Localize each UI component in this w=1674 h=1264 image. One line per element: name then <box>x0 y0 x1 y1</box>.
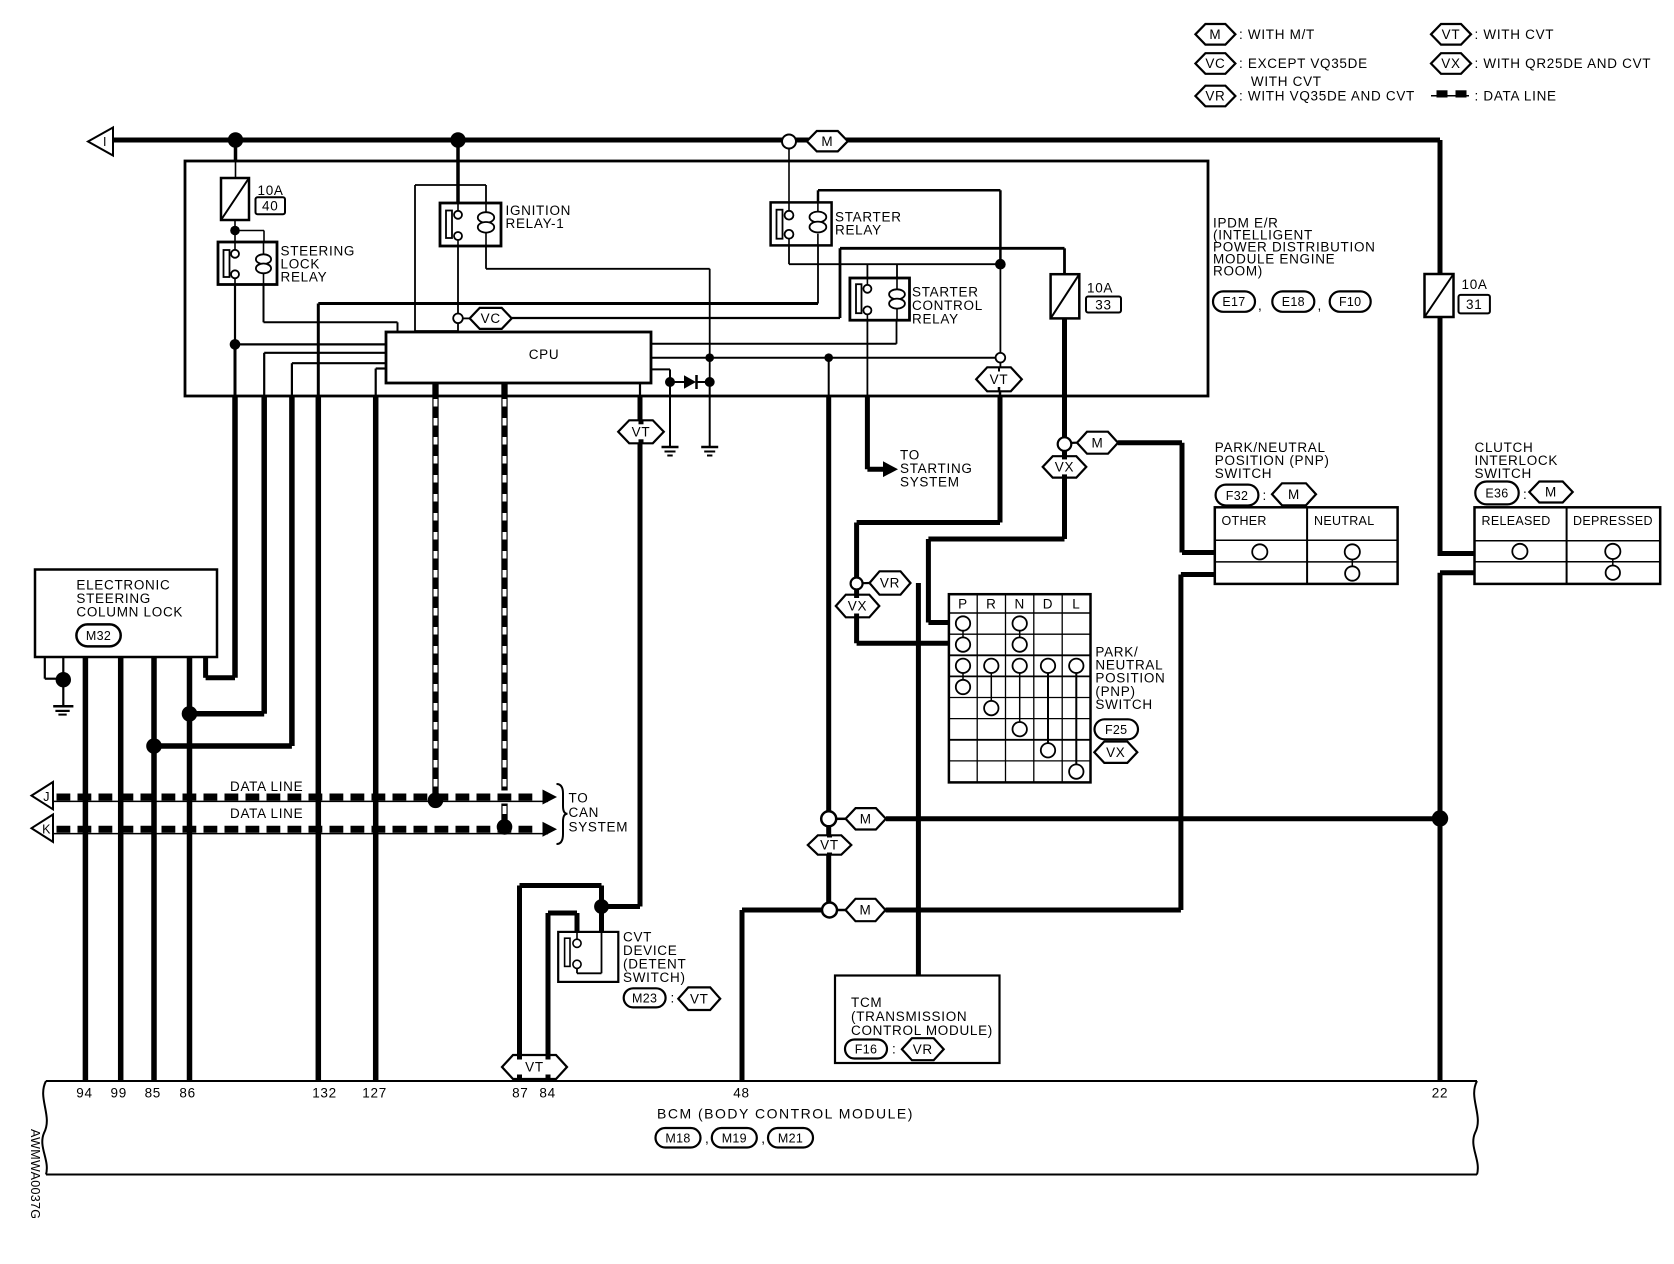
svg-text:CPU: CPU <box>529 347 560 362</box>
svg-text:M: M <box>1288 487 1300 502</box>
svg-text:: WITH VQ35DE AND CVT: : WITH VQ35DE AND CVT <box>1239 89 1415 104</box>
svg-text:BCM (BODY CONTROL MODULE): BCM (BODY CONTROL MODULE) <box>657 1106 914 1122</box>
svg-text:: EXCEPT VQ35DE: : EXCEPT VQ35DE <box>1239 56 1368 71</box>
svg-text:,: , <box>705 1131 709 1146</box>
svg-text:: WITH CVT: : WITH CVT <box>1475 27 1555 42</box>
svg-text:CONTROL MODULE): CONTROL MODULE) <box>851 1023 993 1038</box>
svg-text:M21: M21 <box>778 1131 803 1145</box>
svg-text:99: 99 <box>110 1086 126 1101</box>
svg-text:10A: 10A <box>1087 280 1113 295</box>
svg-text:VX: VX <box>848 599 867 614</box>
svg-text:VX: VX <box>1441 56 1460 71</box>
svg-text:K: K <box>42 822 51 836</box>
svg-text:AWMWA0037G: AWMWA0037G <box>28 1129 42 1219</box>
svg-text:SWITCH: SWITCH <box>1095 697 1152 712</box>
svg-text:P: P <box>958 597 968 612</box>
svg-text:F16: F16 <box>855 1043 877 1057</box>
svg-text:M19: M19 <box>722 1131 747 1145</box>
svg-text:I: I <box>103 135 107 149</box>
svg-text:NEUTRAL: NEUTRAL <box>1314 514 1374 528</box>
svg-text:33: 33 <box>1095 298 1111 313</box>
svg-text:E18: E18 <box>1282 295 1305 309</box>
svg-text:E17: E17 <box>1222 295 1245 309</box>
svg-text:87: 87 <box>512 1086 528 1101</box>
svg-text:F32: F32 <box>1226 489 1248 503</box>
svg-text:SWITCH: SWITCH <box>1215 466 1272 481</box>
svg-text:M: M <box>1092 435 1104 450</box>
svg-text:M: M <box>860 811 872 826</box>
svg-text:SYSTEM: SYSTEM <box>900 475 960 490</box>
svg-text:M: M <box>821 134 833 149</box>
svg-text:48: 48 <box>733 1086 749 1101</box>
svg-text:M: M <box>860 903 872 918</box>
svg-text:WITH CVT: WITH CVT <box>1251 74 1322 89</box>
svg-text::: : <box>671 991 675 1006</box>
svg-text:E36: E36 <box>1485 487 1508 501</box>
svg-text:SYSTEM: SYSTEM <box>569 820 629 835</box>
svg-text:R: R <box>986 597 996 612</box>
svg-text:31: 31 <box>1466 297 1482 312</box>
svg-text:M: M <box>1209 27 1221 42</box>
svg-text:VR: VR <box>913 1042 933 1057</box>
svg-text:F10: F10 <box>1339 295 1361 309</box>
svg-text:VR: VR <box>1205 89 1225 104</box>
svg-text:VT: VT <box>690 991 709 1006</box>
svg-text:SWITCH): SWITCH) <box>623 970 686 985</box>
svg-text:SWITCH: SWITCH <box>1475 466 1532 481</box>
svg-text:M18: M18 <box>665 1131 690 1145</box>
svg-text:OTHER: OTHER <box>1222 514 1267 528</box>
svg-text:127: 127 <box>362 1086 387 1101</box>
svg-text::: : <box>892 1042 896 1057</box>
svg-text:86: 86 <box>179 1086 195 1101</box>
svg-text:VX: VX <box>1055 460 1074 475</box>
svg-text:22: 22 <box>1432 1086 1448 1101</box>
svg-text:F25: F25 <box>1105 723 1127 737</box>
svg-text:: WITH M/T: : WITH M/T <box>1239 27 1315 42</box>
svg-text:VT: VT <box>820 838 839 853</box>
svg-text:L: L <box>1072 597 1080 612</box>
svg-text:VX: VX <box>1106 745 1125 760</box>
svg-text:TO: TO <box>569 791 589 806</box>
svg-text:RELAY: RELAY <box>281 270 328 285</box>
svg-text:RELAY-1: RELAY-1 <box>506 216 565 231</box>
svg-text:VR: VR <box>880 576 900 591</box>
svg-text:M: M <box>1545 485 1557 500</box>
svg-text:94: 94 <box>76 1086 92 1101</box>
svg-text:D: D <box>1043 597 1053 612</box>
svg-text:: WITH QR25DE AND CVT: : WITH QR25DE AND CVT <box>1475 56 1652 71</box>
svg-text:TCM: TCM <box>851 995 882 1010</box>
svg-text:VT: VT <box>525 1060 544 1075</box>
svg-text:10A: 10A <box>258 183 284 198</box>
svg-text:DATA LINE: DATA LINE <box>230 779 303 794</box>
svg-text:85: 85 <box>145 1086 161 1101</box>
svg-text:,: , <box>1318 298 1322 313</box>
svg-text:COLUMN LOCK: COLUMN LOCK <box>76 605 183 620</box>
svg-text:RELAY: RELAY <box>912 312 959 327</box>
svg-text:,: , <box>761 1131 765 1146</box>
svg-text:DEPRESSED: DEPRESSED <box>1573 514 1653 528</box>
svg-text:ROOM): ROOM) <box>1213 264 1263 279</box>
svg-text:M32: M32 <box>86 629 111 643</box>
svg-text:132: 132 <box>312 1086 337 1101</box>
svg-text:RELEASED: RELEASED <box>1482 514 1551 528</box>
svg-text:J: J <box>43 790 50 804</box>
svg-text:(TRANSMISSION: (TRANSMISSION <box>851 1009 967 1024</box>
svg-text:N: N <box>1014 597 1024 612</box>
svg-text:CAN: CAN <box>569 805 600 820</box>
svg-text::: : <box>1263 488 1267 503</box>
svg-text:: DATA LINE: : DATA LINE <box>1475 89 1557 104</box>
svg-text:40: 40 <box>262 199 278 214</box>
svg-text:VT: VT <box>1442 27 1461 42</box>
svg-text:VT: VT <box>990 372 1009 387</box>
svg-text:VC: VC <box>481 311 501 326</box>
svg-text:DATA LINE: DATA LINE <box>230 806 303 821</box>
svg-text::: : <box>1523 487 1527 502</box>
svg-text:RELAY: RELAY <box>835 223 882 238</box>
svg-text:VC: VC <box>1205 56 1225 71</box>
svg-text:M23: M23 <box>632 992 657 1006</box>
svg-text:,: , <box>1258 298 1262 313</box>
svg-text:84: 84 <box>539 1086 555 1101</box>
svg-text:VT: VT <box>632 424 651 439</box>
svg-text:10A: 10A <box>1462 277 1488 292</box>
